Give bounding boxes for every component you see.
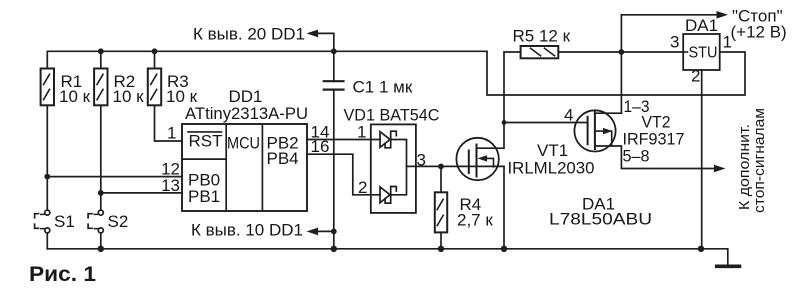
svg-text:К выв. 10 DD1: К выв. 10 DD1	[191, 220, 303, 239]
svg-text:16: 16	[311, 137, 330, 156]
wire C1 top to rail	[333, 51, 335, 81]
node pin12/R1/S1	[44, 174, 50, 180]
svg-text:ATtiny2313A-PU: ATtiny2313A-PU	[185, 104, 308, 123]
node rail-S2	[98, 246, 104, 252]
transistor VT2	[574, 110, 615, 151]
node rail-R3	[152, 48, 158, 54]
node VT2 gate/R5/VT1 drain	[502, 120, 507, 125]
svg-text:К выв. 20 DD1: К выв. 20 DD1	[193, 24, 305, 43]
wire R5 right to +12V node	[558, 51, 621, 53]
switch S1	[45, 210, 50, 215]
wire +12V node up and VT2 source top	[620, 15, 622, 113]
svg-text:VT1: VT1	[537, 141, 568, 160]
svg-text:MCU: MCU	[227, 133, 260, 152]
svg-text:VD1 BAT54C: VD1 BAT54C	[344, 106, 440, 125]
IC DD1 box	[182, 124, 307, 211]
wire VT2 gate from node	[504, 122, 588, 124]
wire bottom rail to ground	[701, 249, 728, 265]
diode assembly VD1 box	[371, 124, 416, 212]
svg-text:R5 12 к: R5 12 к	[513, 27, 571, 46]
svg-text:L78L50ABU: L78L50ABU	[549, 210, 652, 229]
svg-text:13: 13	[161, 176, 180, 195]
svg-text:Рис. 1: Рис. 1	[29, 263, 96, 286]
svg-text:2,7 к: 2,7 к	[457, 211, 493, 230]
svg-text:DA1: DA1	[685, 16, 718, 35]
svg-text:PB4: PB4	[267, 149, 299, 168]
svg-text:1: 1	[167, 124, 176, 143]
node +12V R5/DA1/VT2	[619, 49, 625, 55]
wire VT1 drain up to R5 left and VT2 gate node	[477, 52, 521, 148]
wire R1 bottom down through pin12 node to S1 top	[46, 105, 48, 210]
svg-text:STU: STU	[689, 45, 718, 62]
voltage regulator DA1 box	[683, 34, 720, 70]
svg-text:3: 3	[670, 32, 679, 51]
diode VD1.1	[380, 132, 390, 148]
capacitor C1	[324, 81, 344, 89]
wire DD1 pin 14 to VD1 pin 1	[307, 139, 380, 141]
wire DD1 pin 12 to R1/S1 node	[47, 176, 182, 178]
node rail-ground	[698, 246, 704, 252]
wire bottom ground rail	[47, 248, 701, 250]
ground	[717, 264, 740, 268]
wire VT2 drain to additional stop signals arrow	[595, 146, 720, 169]
svg-text:IRLML2030: IRLML2030	[508, 159, 595, 178]
svg-text:2: 2	[691, 67, 700, 86]
node rail-R4	[438, 246, 444, 252]
svg-text:1: 1	[357, 123, 366, 142]
wire S1 bottom to bottom rail	[46, 233, 48, 249]
resistor R3	[148, 69, 161, 106]
wire +5V top rail from R1 top across to DA1 output route	[47, 51, 745, 95]
node VD1.3/R4/VT1 gate	[438, 164, 444, 170]
svg-text:2: 2	[358, 178, 367, 197]
svg-text:C1 1 мк: C1 1 мк	[353, 77, 413, 96]
resistor R5	[521, 46, 559, 58]
wire DA1 pin 2 down to bottom rail	[701, 70, 703, 249]
node rail-C1 bottom	[331, 246, 337, 252]
node rail-R2	[98, 48, 104, 54]
svg-text:(+12 В): (+12 В)	[731, 23, 787, 42]
svg-text:3: 3	[417, 150, 426, 169]
wire R2 top to rail	[100, 51, 102, 68]
wire C1 bottom down to bottom rail	[333, 90, 335, 249]
wire arrow to "Stop" +12V	[621, 14, 722, 16]
svg-text:PB1: PB1	[188, 187, 220, 206]
wire R3 top to rail	[154, 51, 156, 68]
wire S2 bottom to bottom rail	[100, 233, 102, 249]
switch S2	[98, 210, 103, 215]
svg-text:5–8: 5–8	[623, 147, 650, 166]
wire R3 bottom to DD1 pin 1	[155, 105, 183, 141]
wire R2 bottom through pin13 node to S2 top	[100, 105, 102, 210]
transistor VT1	[456, 138, 498, 180]
node rail-VT1 source	[501, 246, 507, 252]
svg-text:S2: S2	[108, 212, 129, 231]
node pin13/R2/S2	[98, 190, 104, 196]
svg-text:стоп-сигналам: стоп-сигналам	[751, 108, 768, 213]
wire R4 node to R4 top	[440, 166, 442, 192]
wire VT1 source down to bottom rail	[503, 166, 505, 248]
svg-text:S1: S1	[54, 212, 75, 231]
wire VD1 common cathode	[391, 140, 407, 195]
resistor R2	[94, 69, 107, 106]
svg-text:10 к: 10 к	[113, 87, 145, 106]
wire VT2 top connection	[595, 112, 622, 114]
node C1/pin10 arrow	[331, 229, 337, 235]
svg-text:10 к: 10 к	[59, 87, 91, 106]
wire DD1 pin 16 to VD1 pin 2	[307, 154, 380, 195]
resistor R4	[435, 192, 447, 232]
svg-text:4: 4	[564, 106, 573, 125]
wire DD1 pin 13 to R2/S2 node	[101, 192, 182, 194]
node rail-C1	[331, 48, 337, 54]
wire VD1 pin 3 to R4 node and VT1	[407, 165, 505, 167]
wire arrow to pin 20 of DD1	[311, 33, 334, 51]
resistor R1	[41, 69, 54, 106]
wire +12V node to DA1 pin 3	[621, 51, 683, 53]
diode VD1.2	[380, 187, 390, 203]
svg-text:RST: RST	[189, 131, 223, 150]
wire R4 bottom to bottom rail	[440, 232, 442, 248]
wire arrow to pin 10 of DD1	[311, 230, 334, 232]
